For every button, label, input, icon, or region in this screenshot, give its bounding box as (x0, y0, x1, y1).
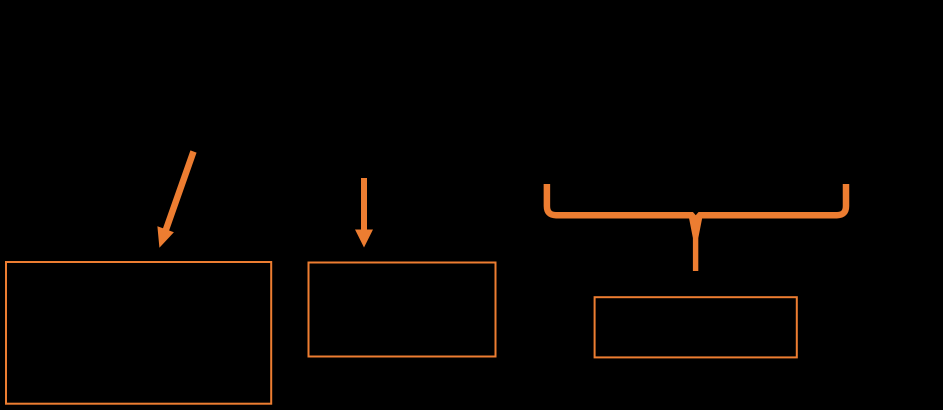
box 1 (6, 262, 271, 404)
arrow A1 diagonal shaft (165, 152, 193, 232)
arrow A1 head (157, 226, 174, 248)
box 3 (595, 297, 797, 357)
underbrace (547, 184, 846, 215)
box 2 (309, 263, 496, 357)
arrow A2 vertical shaft (361, 178, 367, 231)
arrow A2 head (355, 230, 373, 248)
underbrace center tip and stem connector (689, 217, 703, 271)
underbrace center notch (692, 211, 699, 215)
